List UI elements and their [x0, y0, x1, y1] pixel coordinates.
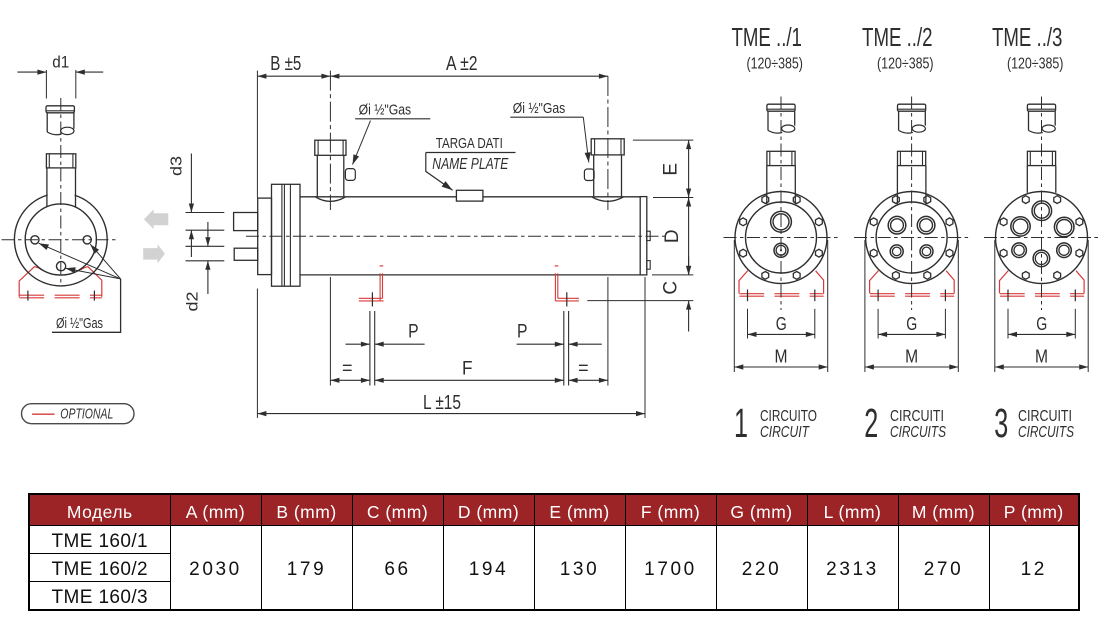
svg-text:M: M [1035, 346, 1048, 366]
svg-text:Øi ½"Gas: Øi ½"Gas [56, 315, 103, 332]
left end view: left gas port hole [31, 236, 39, 244]
dimension D [686, 198, 691, 275]
end view 3: vertical centerline [1041, 97, 1043, 311]
end view 3: M extension lines [995, 240, 1088, 372]
end view 1: large circuit port [771, 211, 792, 232]
svg-text:3: 3 [994, 400, 1008, 446]
dimension E: extension lines [633, 140, 693, 197]
side view: right pipe connection [591, 139, 624, 202]
dimension d1: dimension lines and arrows [17, 70, 103, 75]
svg-text:2: 2 [864, 400, 878, 446]
side view: left pipe gas nub [345, 169, 355, 181]
side view: right red mounting foot (optional) [555, 266, 579, 301]
left end view: leader arrows to gas ports [37, 240, 120, 278]
side view: left head cylinder [258, 198, 272, 275]
svg-text:CIRCUITI: CIRCUITI [1018, 408, 1072, 425]
end view 2: dimension G [878, 332, 945, 337]
svg-text:TARGA DATI: TARGA DATI [436, 135, 503, 152]
svg-text:CIRCUIT: CIRCUIT [760, 424, 810, 441]
side view: name plate rectangle [456, 190, 483, 201]
side view: shell body [300, 197, 640, 275]
svg-text:d3: d3 [169, 156, 186, 176]
svg-text:CIRCUITI: CIRCUITI [890, 408, 944, 425]
svg-text:G: G [776, 314, 787, 334]
end view 2: M extension lines [865, 240, 958, 372]
targa dati underline [426, 152, 516, 154]
end view 1: pipe walls [767, 166, 796, 204]
end view 1: bracket tick marks [748, 290, 815, 302]
end view 2: small circuit ports [890, 245, 933, 258]
end view 1: vertical centerline [780, 97, 782, 311]
svg-text:TME ../3: TME ../3 [992, 22, 1063, 52]
left end view: vertical centerline [60, 98, 62, 284]
side view: lower tube stub d2 [234, 248, 258, 260]
dimension P left foot [346, 342, 425, 347]
side view: right end cap [640, 197, 647, 275]
end view 1: bolt holes [740, 196, 823, 280]
svg-text:CIRCUITS: CIRCUITS [890, 424, 946, 441]
svg-text:=: = [342, 359, 353, 380]
gray flow arrow pointing right [143, 244, 165, 263]
dimension d1: extension lines [46, 70, 75, 99]
end view 3: red optional bracket [1000, 271, 1085, 297]
svg-text:(120÷385): (120÷385) [1007, 56, 1064, 73]
svg-text:D: D [662, 229, 683, 243]
left end view: loose cap fitting [46, 106, 74, 135]
svg-text:TME ../2: TME ../2 [862, 22, 933, 52]
end view 2: vertical centerline [911, 97, 913, 311]
svg-text:M: M [905, 346, 918, 366]
end view 2: bracket tick marks [878, 290, 945, 302]
end view 2: pipe hex nut [898, 151, 926, 165]
svg-text:Øi ½"Gas: Øi ½"Gas [359, 102, 412, 119]
dimension data table [28, 493, 1080, 611]
end view 1: small circuit port [774, 243, 788, 257]
side view: left pipe connection [315, 140, 346, 201]
svg-text:L ±15: L ±15 [423, 392, 461, 414]
dimension A +/-2 [330, 74, 608, 79]
svg-text:OPTIONAL: OPTIONAL [60, 407, 113, 423]
end view 2: loose cap fitting [898, 104, 926, 133]
gray flow arrow pointing left [144, 209, 168, 229]
side view: right foot bolt tick [566, 292, 568, 306]
side view: shell centerline [246, 235, 668, 237]
svg-text:G: G [1036, 314, 1047, 334]
dimension d3: arrows [189, 154, 194, 258]
left end view: pipe interior mask [48, 183, 75, 203]
left end view: pipe hex nut [46, 154, 75, 168]
svg-text:(120÷385): (120÷385) [746, 56, 803, 73]
end view 2: large circuit ports [888, 216, 935, 234]
svg-text:d1: d1 [52, 52, 69, 71]
left end view: bracket hole tick marks [28, 291, 95, 301]
side view: right foot bolt slot lines [564, 311, 569, 386]
dimension equal right [569, 378, 608, 383]
svg-text:1: 1 [734, 400, 748, 446]
leader arrow to right pipe nub [583, 117, 591, 163]
svg-text:TME ../1: TME ../1 [731, 22, 802, 52]
svg-text:F: F [462, 359, 473, 380]
end view 3: outer flange circle [996, 192, 1088, 284]
optional legend: red sample line [32, 413, 55, 415]
end view 1: pipe hex nut [767, 151, 795, 165]
dimension F [375, 378, 564, 383]
name plate callout leader [426, 153, 455, 193]
dimension P right foot [517, 342, 602, 347]
extension line shell right end [644, 277, 646, 418]
left end view: gas port label box [52, 279, 121, 332]
svg-text:Øi ½"Gas: Øi ½"Gas [513, 100, 566, 117]
end view 1: horizontal centerline [724, 237, 839, 239]
left end view: horizontal centerline [2, 239, 117, 241]
svg-text:C: C [661, 281, 682, 295]
end view 3: horizontal centerline [984, 237, 1099, 239]
svg-text:P: P [408, 322, 419, 343]
left end view: bottom gas port hole [57, 262, 66, 271]
end view 3: bracket tick marks [1008, 290, 1075, 302]
dimension L +/-15 [257, 411, 645, 416]
side view: end cap tabs [647, 231, 650, 269]
end view 2: G extension lines [878, 309, 945, 339]
end view 2: horizontal centerline [854, 237, 969, 239]
optional legend: pill outline [22, 404, 135, 424]
end view 1: dimension M [734, 364, 827, 369]
dimension d2: arrows [205, 222, 210, 294]
left end view: inner flange circle [25, 204, 96, 275]
end view 3: dimension M [995, 364, 1088, 369]
left end view: right gas port hole [83, 236, 91, 244]
end view 2: inner flange circle [876, 202, 947, 273]
end view 2: pipe walls [897, 166, 926, 204]
leader arrow to left pipe nub [350, 121, 371, 166]
end view 3: small circuit ports [1012, 243, 1071, 267]
end view 2: bolt holes [870, 196, 953, 280]
dimension C [686, 257, 691, 332]
end view 3: large circuit ports [1011, 201, 1074, 237]
side view: left red mounting foot (optional) [359, 266, 384, 301]
svg-text:P: P [517, 322, 528, 343]
dimension D: extension line [652, 274, 693, 276]
extension line left pipe centerline [329, 71, 331, 386]
left end view: pipe walls [47, 168, 76, 207]
svg-text:NAME PLATE: NAME PLATE [432, 156, 509, 173]
svg-text:E: E [661, 163, 682, 176]
end view 3: bolt holes [1000, 196, 1083, 280]
end view 1: red optional bracket [739, 271, 824, 297]
svg-text:CIRCUITO: CIRCUITO [760, 408, 817, 425]
dimension B +/-5 [257, 74, 330, 79]
svg-text:(120÷385): (120÷385) [877, 56, 934, 73]
side view: left foot bolt slot lines [370, 311, 375, 386]
extension line right pipe centerline [607, 76, 609, 386]
side view: upper tube stub d3 [234, 213, 258, 231]
svg-text:=: = [578, 359, 589, 380]
left end view: red optional mounting bracket [19, 267, 102, 298]
side view: main flange [272, 184, 301, 286]
svg-text:B ±5: B ±5 [270, 53, 301, 75]
end view 1: G extension lines [748, 309, 815, 339]
end view 2: outer flange circle [866, 192, 958, 284]
side view: left foot bolt tick [371, 292, 373, 306]
end view 3: dimension G [1008, 332, 1075, 337]
dimension C: extension line [587, 300, 693, 302]
dimension d2: extension ticks [186, 246, 225, 260]
end view 1: inner flange circle [746, 202, 817, 273]
label underline left [355, 118, 430, 120]
end view 3: pipe hex nut [1027, 151, 1055, 165]
extension line at flange left face [256, 71, 258, 418]
dimension d3: extension ticks [186, 213, 225, 231]
svg-text:G: G [906, 314, 917, 334]
dimension E [686, 140, 691, 197]
end view 2: red optional bracket [870, 271, 955, 297]
left end view: outer flange circle [14, 193, 107, 286]
end view 1: loose cap fitting [767, 104, 795, 133]
svg-text:M: M [775, 346, 788, 366]
end view 3: loose cap fitting [1027, 104, 1055, 133]
end view 1: outer flange circle [735, 192, 827, 284]
side view: right pipe gas nub [584, 169, 594, 181]
dimension equal left [330, 378, 370, 383]
end view 1: dimension G [748, 332, 815, 337]
svg-text:d2: d2 [185, 291, 202, 311]
end view 2: dimension M [865, 364, 958, 369]
end view 3: G extension lines [1008, 309, 1075, 339]
label underline right [510, 116, 583, 118]
end view 1: M extension lines [734, 240, 827, 372]
svg-text:A ±2: A ±2 [446, 53, 478, 75]
svg-text:CIRCUITS: CIRCUITS [1018, 424, 1074, 441]
end view 3: pipe walls [1027, 166, 1056, 193]
